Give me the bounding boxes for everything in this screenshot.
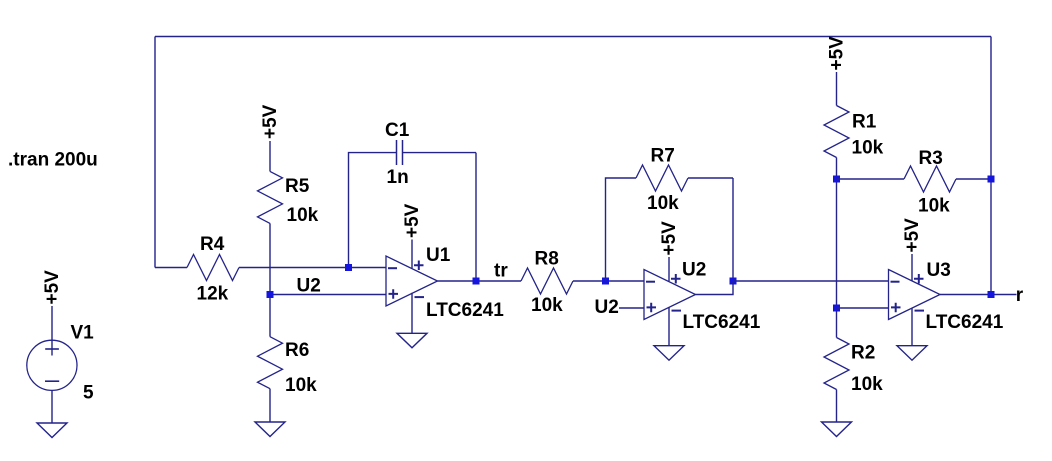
svg-text:U1: U1 xyxy=(426,245,451,266)
wire row to R4 xyxy=(155,267,187,269)
svg-text:LTC6241: LTC6241 xyxy=(683,312,761,333)
svg-text:R8: R8 xyxy=(535,249,559,270)
svg-text:10k: 10k xyxy=(531,295,563,316)
svg-text:r: r xyxy=(1016,285,1024,306)
junction R3 / right column xyxy=(988,176,995,183)
resistor R4 xyxy=(187,234,239,305)
resistor R2 xyxy=(824,338,883,396)
svg-text:10k: 10k xyxy=(285,375,317,396)
svg-text:10k: 10k xyxy=(918,196,950,217)
junction R1 / R3 xyxy=(833,176,840,183)
wire U2 V- to ground xyxy=(668,307,670,346)
svg-text:R2: R2 xyxy=(851,343,875,364)
power flag +5V (R5) xyxy=(260,104,281,171)
svg-text:+5V: +5V xyxy=(42,270,63,305)
svg-text:+5V: +5V xyxy=(902,218,923,253)
wire R7 loop right xyxy=(688,178,733,281)
junction C1 left / R4 row xyxy=(345,264,352,271)
svg-text:+5V: +5V xyxy=(402,203,423,238)
svg-text:R7: R7 xyxy=(651,146,675,167)
wire U2 + input xyxy=(619,307,644,309)
wire U3 + input xyxy=(837,307,889,309)
svg-text:U3: U3 xyxy=(927,260,951,281)
ground (R2) xyxy=(822,422,852,437)
svg-text:tr: tr xyxy=(494,261,508,282)
op-amp U1 xyxy=(386,245,504,321)
wire U1 V- to ground xyxy=(411,293,413,334)
wire R5 to R6 xyxy=(269,223,271,336)
svg-text:LTC6241: LTC6241 xyxy=(926,312,1004,333)
wire U3 V- to ground xyxy=(911,308,913,345)
voltage source V1 xyxy=(27,323,94,404)
wire left column xyxy=(154,37,156,268)
ground (R6) xyxy=(255,422,285,437)
svg-text:LTC6241: LTC6241 xyxy=(426,300,504,321)
ground (V1) xyxy=(37,423,67,438)
wire R2 to ground xyxy=(836,390,838,423)
svg-text:10k: 10k xyxy=(852,138,884,159)
svg-text:+5V: +5V xyxy=(827,36,848,71)
power flag +5V (U2) xyxy=(659,221,680,281)
power flag +5V (U3) xyxy=(902,218,923,281)
svg-text:U2: U2 xyxy=(297,276,321,297)
svg-text:+5V: +5V xyxy=(659,221,680,256)
wire V1 to ground xyxy=(51,390,53,423)
wire R3 row xyxy=(837,178,992,180)
junction U1 output / C1 xyxy=(473,278,480,285)
ground (U2) xyxy=(654,346,684,361)
wire U2 output riser xyxy=(696,281,734,295)
wire right column xyxy=(990,37,992,295)
wire R7 loop left xyxy=(606,178,637,281)
svg-text:R3: R3 xyxy=(919,148,943,169)
resistor R6 xyxy=(258,337,318,396)
svg-text:5: 5 xyxy=(83,383,94,404)
svg-text:10k: 10k xyxy=(851,374,883,395)
svg-text:V1: V1 xyxy=(71,323,95,344)
svg-text:C1: C1 xyxy=(385,120,410,141)
resistor R8 xyxy=(521,249,573,317)
op-amp U2 xyxy=(644,260,761,334)
resistor R3 xyxy=(904,148,956,217)
wire U1 output xyxy=(438,280,522,282)
svg-text:10k: 10k xyxy=(647,193,679,214)
junction R2 / U3 + input xyxy=(833,305,840,312)
resistor R5 xyxy=(258,171,319,226)
op-amp U3 xyxy=(889,260,1004,333)
wire U3 output xyxy=(940,294,1017,296)
wire node U2 row xyxy=(270,294,386,296)
wire U2 out to U3 inverting xyxy=(733,280,889,282)
ground (U3) xyxy=(897,346,927,361)
junction R8 / R7 xyxy=(602,278,609,285)
svg-text:+5V: +5V xyxy=(260,104,281,139)
resistor R1 xyxy=(824,106,884,159)
wire R8 to U2 xyxy=(573,280,644,282)
svg-text:.tran 200u: .tran 200u xyxy=(8,150,98,171)
power flag +5V (R1) xyxy=(827,36,848,106)
ground (U1) xyxy=(397,333,427,348)
wire R1 to R2 column xyxy=(836,158,838,338)
svg-text:U2: U2 xyxy=(682,260,706,281)
junction R7 / U2 out xyxy=(730,278,737,285)
junction divider node xyxy=(267,291,274,298)
capacitor C1 xyxy=(349,120,477,281)
power flag +5V (U1) xyxy=(402,203,423,268)
svg-text:1n: 1n xyxy=(387,167,409,188)
junction U3 output / feedback xyxy=(988,291,995,298)
svg-text:R4: R4 xyxy=(200,234,225,255)
svg-text:12k: 12k xyxy=(197,284,229,305)
svg-text:U2: U2 xyxy=(595,297,619,318)
power flag +5V (V1) xyxy=(42,270,63,356)
svg-text:R6: R6 xyxy=(285,340,309,361)
wire R4 to U1 inverting input xyxy=(239,267,386,269)
svg-text:R5: R5 xyxy=(285,176,310,197)
resistor R7 xyxy=(636,146,688,215)
wire R6 to ground xyxy=(269,389,271,422)
svg-text:R1: R1 xyxy=(852,112,877,133)
svg-text:10k: 10k xyxy=(287,205,319,226)
wire top feedback xyxy=(155,36,991,38)
